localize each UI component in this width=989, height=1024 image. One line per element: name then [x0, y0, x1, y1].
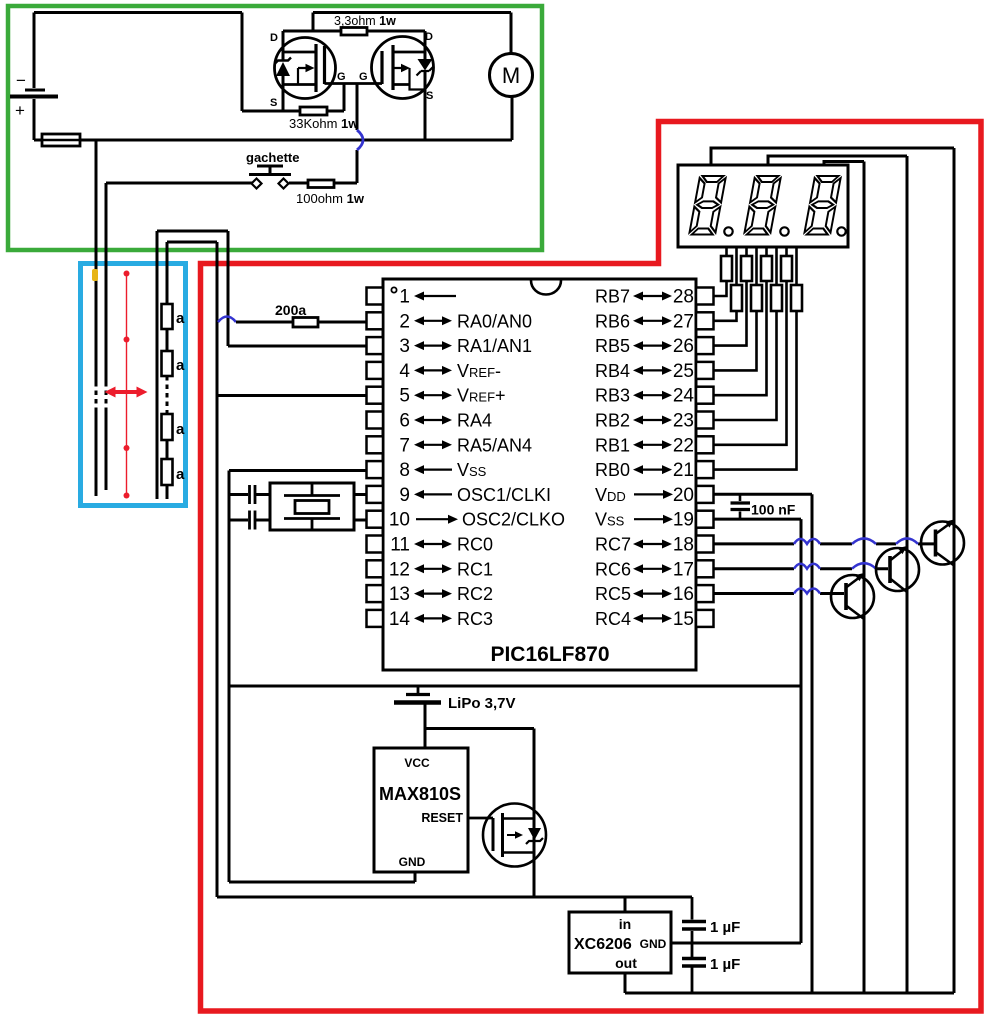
- pin 21 box: [696, 461, 714, 478]
- crystal X1 bottom plate: [284, 519, 340, 531]
- wire gate node vertical lower: [356, 150, 359, 183]
- wire display segment lead 7: [785, 247, 788, 256]
- wire pin 20 VDD: [714, 493, 812, 496]
- svg-text:RC1: RC1: [457, 559, 493, 579]
- svg-text:in: in: [619, 916, 631, 932]
- svg-text:out: out: [615, 955, 637, 971]
- display decimal point 3: [837, 227, 845, 235]
- resistor Rs1 body: [721, 256, 732, 281]
- pin 2 box: [367, 312, 384, 329]
- battery LiPo top lead: [417, 686, 420, 693]
- wire display segment lead 8: [795, 247, 798, 285]
- wire battery to source node drop: [241, 13, 244, 112]
- wire Rs1 to pin 28: [714, 281, 727, 296]
- svg-text:RC3: RC3: [457, 609, 493, 629]
- wire 200a to pin 2: [318, 321, 367, 324]
- red enclosure box (controller section, L-shaped): [201, 122, 982, 1012]
- transistor Q3 source connection: [503, 851, 535, 854]
- pin 16 direction arrow: [641, 592, 664, 594]
- pin 5 box: [367, 387, 384, 404]
- svg-text:2: 2: [399, 311, 410, 332]
- wire chain link 1-2: [166, 329, 169, 351]
- svg-text:9: 9: [399, 485, 410, 506]
- wire outer loop top: [157, 230, 228, 233]
- pin 7 box: [367, 436, 384, 453]
- wire hop (blue) RA0 wire over outer leg: [218, 317, 236, 323]
- svg-text:RB3: RB3: [595, 386, 630, 406]
- resistor Rs5 body: [761, 256, 772, 281]
- wire bottom rail of motor circuit: [34, 139, 512, 142]
- wire hop (blue) at y=593.5: [794, 589, 820, 594]
- transistor Q3 body diode: [528, 828, 541, 840]
- svg-text:13: 13: [389, 584, 410, 605]
- svg-text:18: 18: [673, 535, 694, 556]
- wire gate node vertical upper: [356, 84, 359, 130]
- svg-text:M: M: [502, 63, 520, 88]
- svg-text:15: 15: [673, 609, 694, 630]
- transistor Q3 reset MOSFET circle: [483, 804, 546, 867]
- wire regulated output rail: [625, 992, 954, 995]
- svg-text:RA4: RA4: [457, 411, 492, 431]
- display DS1 3-digit 7-segment body: [678, 165, 848, 247]
- transistor T1 digit driver: [831, 575, 874, 618]
- switch gachette push-button actuator: [249, 166, 291, 175]
- transistor Q2 drain connection: [393, 51, 425, 54]
- wire reset MOSFET drain-source line: [533, 729, 536, 898]
- svg-text:28: 28: [673, 287, 694, 308]
- svg-text:RA0/AN0: RA0/AN0: [457, 311, 532, 331]
- svg-text:G: G: [337, 71, 346, 83]
- resistor Ra1 body: [162, 304, 173, 329]
- pin 19 box: [696, 511, 714, 528]
- wire second probe line dashed break: [105, 382, 108, 408]
- pin 22 direction arrow: [641, 444, 664, 446]
- svg-text:S: S: [270, 97, 277, 109]
- wire display segment lead 2: [735, 247, 738, 285]
- svg-text:RC7: RC7: [595, 535, 631, 555]
- switch gachette right contact: [279, 179, 289, 189]
- motor M circle: [490, 54, 533, 97]
- pin 5 direction arrow: [422, 394, 444, 396]
- pin 4 direction arrow: [422, 369, 444, 371]
- pin 1 direction arrow: [422, 295, 456, 297]
- wire LiPo to MAX810S VCC: [424, 729, 427, 749]
- wire battery bottom lead: [33, 99, 36, 140]
- pin 15 box: [696, 610, 714, 627]
- wire chain line to pin 5: [217, 394, 367, 397]
- pin 8 box: [367, 461, 384, 478]
- transistor Q2 substrate arrow: [393, 68, 425, 90]
- svg-text:GND: GND: [640, 937, 667, 951]
- crystal X1 top plate: [284, 483, 340, 496]
- svg-text:5: 5: [399, 386, 410, 407]
- sensor red dot 1: [124, 271, 130, 277]
- resistor Rs7 body: [781, 256, 792, 281]
- transistor Q3 substrate arrow: [507, 834, 516, 836]
- transistor Q1 source lead: [282, 76, 285, 111]
- resistor Rs4 body: [751, 285, 762, 311]
- wire chain dashed link: [166, 376, 169, 414]
- svg-text:XC6206: XC6206: [574, 936, 632, 953]
- wire pin 19 VSS: [714, 518, 801, 521]
- svg-text:RB1: RB1: [595, 435, 630, 455]
- wire Rs5 to pin 24: [714, 281, 767, 395]
- IC U1 pin-1 notch: [531, 281, 561, 295]
- pin 20 direction arrow: [634, 493, 665, 495]
- transistor Q1 substrate arrow: [298, 68, 306, 85]
- wire Rs2 to pin 27: [714, 311, 737, 321]
- transistor Q3 drain connection: [503, 817, 535, 820]
- svg-text:20: 20: [673, 485, 694, 506]
- wire pin 17 RC6 to T2 base: [714, 567, 888, 570]
- svg-text:MAX810S: MAX810S: [379, 784, 461, 804]
- resistor Rs6 body: [771, 285, 782, 311]
- display decimal point 1: [724, 227, 732, 235]
- battery LiPo positive plate: [394, 700, 441, 705]
- svg-text:6: 6: [399, 411, 410, 432]
- resistor 33Kohm body: [300, 107, 327, 115]
- pin 8 direction arrow: [422, 469, 452, 471]
- capacitor C3 plates: [682, 922, 706, 930]
- sensor red axis line: [126, 274, 128, 497]
- transistor Q2 body diode: [418, 59, 433, 71]
- svg-text:12: 12: [389, 559, 410, 580]
- pin 15 direction arrow: [641, 617, 664, 619]
- pin 7 direction arrow: [422, 444, 444, 446]
- svg-text:RC5: RC5: [595, 584, 631, 604]
- wire left probe line upper (into blue box): [95, 140, 98, 382]
- transistor Q2 right MOSFET circle: [372, 37, 434, 99]
- wire T2 collector-emitter line: [906, 156, 909, 993]
- svg-text:−: −: [16, 71, 26, 90]
- wire gachette to 100ohm resistor: [289, 182, 308, 185]
- transistor Q2 source lead to bottom rail: [424, 71, 427, 140]
- capacitor 100nF top lead: [739, 494, 742, 501]
- wire MAX810S RESET to Q3 gate: [468, 817, 493, 820]
- switch gachette left contact: [252, 179, 262, 189]
- wire plain line to pin 3: [228, 345, 367, 348]
- pin 17 box: [696, 560, 714, 577]
- svg-text:RB0: RB0: [595, 460, 630, 480]
- wire pin 16 RC5 to T1 base: [714, 592, 844, 595]
- svg-text:a: a: [176, 421, 185, 438]
- wire chain link 3-4: [166, 440, 169, 459]
- pin 4 box: [367, 362, 384, 379]
- transistor Q1 gate bar: [323, 46, 326, 84]
- wire top rail tap to 3.3ohm link: [312, 13, 315, 32]
- display digit 3: [804, 176, 841, 235]
- transistor Q2 gate lead: [357, 82, 382, 85]
- svg-text:14: 14: [389, 609, 411, 630]
- wire regulator output lead: [624, 973, 627, 993]
- fuse F1 body: [42, 134, 80, 146]
- svg-text:1 µF: 1 µF: [710, 919, 740, 936]
- IC U2 MAX810S body: [374, 748, 468, 872]
- transistor Q3 gate bar: [492, 818, 495, 851]
- pin 24 direction arrow: [641, 394, 664, 396]
- wire gachette switch left lead: [106, 182, 252, 185]
- pin 23 box: [696, 412, 714, 429]
- svg-text:RB6: RB6: [595, 311, 630, 331]
- wire 33Kohm to gate tap: [327, 110, 344, 113]
- svg-text:8: 8: [399, 460, 410, 481]
- transistor Q1 left MOSFET circle: [275, 38, 336, 99]
- wire left probe line dashed break: [95, 382, 98, 408]
- wire second probe line upper (into blue box): [105, 183, 108, 382]
- pin 18 box: [696, 536, 714, 553]
- capacitor C1 plates: [250, 485, 256, 504]
- svg-text:200a: 200a: [275, 302, 306, 318]
- battery LiPo negative plate: [406, 693, 430, 696]
- svg-text:7: 7: [399, 435, 410, 456]
- svg-text:+: +: [15, 101, 25, 120]
- battery B1 positive plate: [10, 95, 58, 99]
- fuse F1 element line: [42, 139, 80, 142]
- wire hop (blue) at y=568.7: [852, 563, 876, 569]
- svg-text:RC2: RC2: [457, 584, 493, 604]
- pin 10 direction arrow: [416, 518, 450, 520]
- svg-text:RA1/AN1: RA1/AN1: [457, 336, 532, 356]
- wire chain bottom lead: [166, 485, 169, 499]
- svg-text:16: 16: [673, 584, 694, 605]
- pin 23 direction arrow: [641, 419, 664, 421]
- wire display segment lead 4: [755, 247, 758, 285]
- svg-text:10: 10: [389, 510, 410, 531]
- pin 13 box: [367, 585, 384, 602]
- pin 26 direction arrow: [641, 345, 664, 347]
- svg-text:4: 4: [399, 361, 410, 382]
- wire C1 to crystal block: [256, 493, 270, 496]
- pin 3 box: [367, 337, 384, 354]
- wire LiPo to reset MOSFET branch: [425, 727, 534, 730]
- svg-text:RESET: RESET: [421, 811, 463, 825]
- pin 25 direction arrow: [641, 369, 664, 371]
- wire C2 to crystal block: [256, 519, 270, 522]
- resistor Rs3 body: [741, 256, 752, 281]
- transistor Q2 channel bar: [391, 45, 394, 90]
- svg-text:100 nF: 100 nF: [751, 502, 796, 518]
- svg-text:a: a: [176, 466, 185, 483]
- svg-text:21: 21: [673, 460, 694, 481]
- wire inner loop right leg down to ground rail: [216, 242, 219, 897]
- pin 6 box: [367, 412, 384, 429]
- wire hop (blue) at y=543.9: [794, 539, 820, 544]
- svg-text:27: 27: [673, 311, 694, 332]
- wire hop (blue) gate line over bottom rail: [357, 130, 363, 150]
- pin 3 direction arrow: [422, 345, 444, 347]
- wire chain tap to 200a resistor: [236, 321, 293, 324]
- wire motor bottom lead: [511, 96, 514, 140]
- wire OSC1 cap lead: [229, 493, 248, 496]
- transistor Q1 source connection: [283, 83, 316, 86]
- display digit 1: [689, 176, 726, 235]
- svg-text:a: a: [176, 310, 185, 327]
- wire ground rail under PIC: [229, 685, 801, 688]
- pin 14 box: [367, 610, 384, 627]
- transistor T3 digit driver: [921, 522, 964, 565]
- wire hop (blue) at y=568.7: [794, 564, 820, 569]
- pin 27 direction arrow: [641, 320, 664, 322]
- pin 9 box: [367, 486, 384, 503]
- svg-text:RC0: RC0: [457, 535, 493, 555]
- wire battery top lead: [33, 13, 36, 89]
- pin 28 direction arrow: [641, 295, 664, 297]
- svg-text:11: 11: [390, 535, 410, 556]
- svg-text:1: 1: [399, 287, 410, 308]
- svg-text:1 µF: 1 µF: [710, 956, 740, 973]
- transistor Q2 source connection: [393, 83, 410, 86]
- transistor Q2 gate bar: [380, 51, 383, 84]
- svg-text:26: 26: [673, 336, 694, 357]
- pin 27 box: [696, 312, 714, 329]
- wire Rs3 to pin 26: [714, 281, 747, 346]
- resistor Ra4 body: [162, 459, 173, 485]
- transistor Q3 channel bar: [501, 813, 504, 857]
- wire sensor plain electrode line: [156, 231, 159, 499]
- svg-text:PIC16LF870: PIC16LF870: [490, 643, 609, 666]
- resistor Rs2 body: [731, 285, 742, 311]
- pin 12 direction arrow: [422, 568, 444, 570]
- wire drain-drain link: [283, 30, 425, 33]
- wire display common 2 to transistor T2 collector line: [768, 156, 907, 165]
- wire XC6206 GND to VSS line: [671, 942, 801, 945]
- wire T1 collector-emitter line: [863, 162, 866, 994]
- resistor Ra2 body: [162, 351, 173, 376]
- svg-text:33Kohm 1w: 33Kohm 1w: [289, 116, 359, 131]
- pin 12 box: [367, 560, 384, 577]
- svg-text:OSC2/CLKO: OSC2/CLKO: [462, 510, 565, 530]
- wire crystal to pin 9: [354, 493, 367, 496]
- svg-text:17: 17: [673, 559, 694, 580]
- wire top rail right segment to motor: [313, 11, 511, 14]
- green enclosure box (motor driver section): [8, 6, 542, 250]
- wire MAX810S GND lead: [414, 872, 417, 882]
- svg-text:a: a: [176, 357, 185, 374]
- wire ground to pin 8: [229, 469, 367, 472]
- wire T3 collector-emitter line: [953, 148, 956, 993]
- crystal X1 body: [295, 501, 329, 514]
- svg-text:GND: GND: [399, 855, 426, 869]
- wire MAX810S ground return: [229, 881, 415, 884]
- wire VSS vertical to regulator ground: [800, 519, 803, 943]
- wire resistor chain top lead: [166, 242, 169, 304]
- svg-text:RB2: RB2: [595, 411, 630, 431]
- pin 28 box: [696, 288, 714, 305]
- transistor Q1 channel bar: [314, 44, 317, 92]
- svg-text:24: 24: [673, 386, 695, 407]
- wire gate tap vertical: [343, 84, 346, 112]
- resistor 3.3ohm body: [341, 28, 367, 36]
- wire display segment lead 5: [765, 247, 768, 256]
- wire Rs4 to pin 25: [714, 311, 757, 370]
- wire Rs8 to pin 21: [714, 311, 797, 470]
- sensor yellow tip mark: [92, 269, 98, 281]
- svg-text:25: 25: [673, 361, 694, 382]
- pin 17 direction arrow: [641, 568, 664, 570]
- transistor Q1 body diode: [276, 62, 290, 76]
- sensor red dot 4: [124, 493, 130, 499]
- pin 26 box: [696, 337, 714, 354]
- blue enclosure box (sensor section): [81, 264, 186, 506]
- wire display segment lead 1: [725, 247, 728, 256]
- wire left probe line lower: [95, 408, 98, 496]
- wire display common 1 to transistor T3 collector line: [711, 148, 954, 165]
- svg-text:RB7: RB7: [595, 287, 630, 307]
- svg-text:S: S: [426, 90, 433, 102]
- battery LiPo bottom lead: [424, 705, 427, 729]
- capacitor C4 bottom lead: [691, 968, 694, 994]
- wire outer loop right leg: [227, 231, 230, 346]
- transistor Q1 drain connection: [283, 51, 316, 54]
- transistor Q2 drain lead: [424, 31, 427, 59]
- pin 16 box: [696, 585, 714, 602]
- pin 21 direction arrow: [641, 469, 664, 471]
- pin 10 box: [367, 511, 384, 528]
- battery B1 negative plate: [25, 89, 45, 92]
- wire ground vertical to MAX810S GND: [228, 471, 231, 883]
- wire bottom ground rail: [217, 896, 692, 899]
- IC U3 XC6206 body: [569, 912, 671, 973]
- wire display common 3 to transistor T1 collector line: [824, 162, 864, 166]
- svg-text:3,3ohm 1w: 3,3ohm 1w: [334, 14, 396, 28]
- pin 20 box: [696, 486, 714, 503]
- svg-text:19: 19: [673, 510, 694, 531]
- display decimal point 2: [780, 227, 788, 235]
- svg-text:RC6: RC6: [595, 559, 631, 579]
- pin 9 direction arrow: [422, 493, 452, 495]
- pin 25 box: [696, 362, 714, 379]
- sensor red dot 3: [124, 445, 130, 451]
- svg-text:LiPo 3,7V: LiPo 3,7V: [448, 695, 516, 712]
- wire second probe line lower: [105, 408, 108, 490]
- wire between capacitors C3 C4: [691, 931, 694, 957]
- pin 14 direction arrow: [422, 617, 444, 619]
- pin 11 direction arrow: [422, 543, 444, 545]
- wire top rail left segment: [34, 11, 242, 14]
- wire regulator input lead: [624, 897, 627, 912]
- wire crystal to pin 10: [354, 519, 367, 522]
- transistor T2 digit driver: [876, 548, 919, 591]
- svg-text:RB5: RB5: [595, 336, 630, 356]
- resistor 100ohm body: [308, 180, 334, 188]
- svg-text:23: 23: [673, 411, 694, 432]
- pin 18 direction arrow: [641, 543, 664, 545]
- capacitor C2 plates: [250, 511, 256, 530]
- resistor 200a body: [293, 318, 318, 328]
- wire OSC2 cap lead: [229, 519, 248, 522]
- display digit 2: [744, 176, 781, 235]
- svg-text:100ohm 1w: 100ohm 1w: [296, 191, 365, 206]
- pin 1 index circle: [391, 287, 396, 292]
- transistor Q1 drain lead: [282, 31, 285, 60]
- wire display segment lead 6: [775, 247, 778, 285]
- svg-text:RC4: RC4: [595, 609, 631, 629]
- pin 13 direction arrow: [422, 592, 444, 594]
- transistor Q1 gate lead: [325, 82, 358, 85]
- pin 22 box: [696, 436, 714, 453]
- sensor red dot 2: [124, 337, 130, 343]
- svg-text:VCC: VCC: [404, 756, 430, 770]
- wire hop (blue) at y=543.9: [852, 538, 876, 544]
- svg-text:OSC1/CLKI: OSC1/CLKI: [457, 485, 551, 505]
- svg-text:RB4: RB4: [595, 361, 630, 381]
- wire 100ohm to gate node: [334, 182, 357, 185]
- svg-text:3: 3: [399, 336, 410, 357]
- wire Rs6 to pin 23: [714, 311, 777, 420]
- wire hop (blue) at y=543.9: [896, 538, 918, 544]
- pin 6 direction arrow: [422, 419, 444, 421]
- svg-text:RA5/AN4: RA5/AN4: [457, 435, 532, 455]
